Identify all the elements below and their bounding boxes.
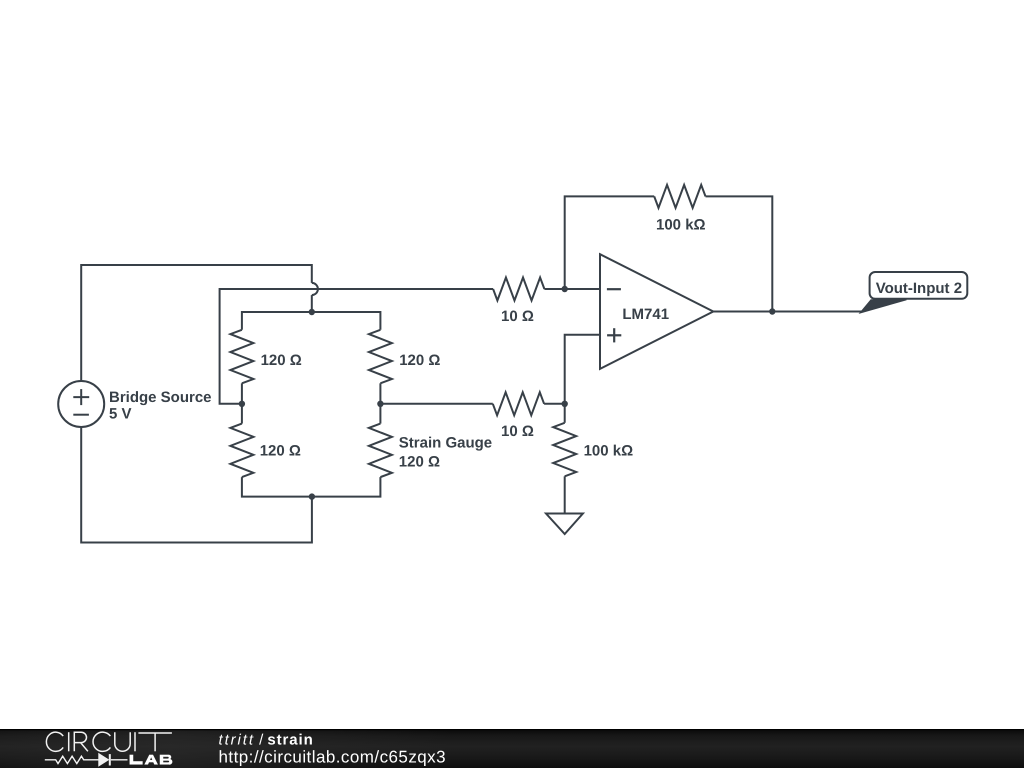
resistor R1 120 ohm (bridge top-left): [230, 330, 253, 384]
wire continues down to bridge top node: [311, 295, 313, 312]
svg-text:Vout-Input 2: Vout-Input 2: [876, 280, 962, 297]
voltage source V1 (Bridge Source 5 V): [58, 381, 104, 427]
resistor R2 120 ohm (bridge top-right): [369, 330, 392, 384]
resistor R5 10 ohm (minus input): [493, 278, 544, 301]
wire R8 to ground: [564, 476, 566, 513]
node: bridge left mid junction: [239, 401, 245, 407]
wire plus node up to op-amp plus input: [565, 335, 600, 404]
node: plus input junction: [562, 401, 568, 407]
svg-text:5 V: 5 V: [109, 405, 132, 422]
node: bridge right mid junction: [377, 401, 383, 407]
svg-text:100 kΩ: 100 kΩ: [584, 443, 634, 460]
op-amp U1 LM741: [600, 254, 713, 369]
svg-text:ttritt / strain: ttritt / strain: [219, 731, 314, 748]
label R4 Strain Gauge 120 ohm: [399, 434, 492, 470]
wire from V1 + terminal up and right to bridge top: [81, 265, 312, 381]
svg-text:100 kΩ: 100 kΩ: [656, 217, 706, 234]
flag tail: [860, 300, 907, 313]
svg-text:120 Ω: 120 Ω: [260, 443, 301, 460]
wire R7 to plus node: [544, 403, 565, 405]
ground symbol: [546, 514, 583, 535]
svg-text:10 Ω: 10 Ω: [501, 308, 534, 325]
wire bridge left mid node to minus-input rail: [220, 289, 494, 404]
wire plus node down to R8: [564, 404, 566, 423]
resistor R3 120 ohm (bridge bottom-left): [230, 424, 253, 478]
wire bridge top rail: [242, 312, 381, 330]
svg-text:120 Ω: 120 Ω: [399, 352, 440, 369]
label Bridge Source 5 V: [109, 389, 212, 423]
wire bridge bottom to V1 - terminal: [81, 427, 312, 543]
node: bridge bottom junction: [309, 493, 315, 499]
wire op-amp output: [713, 311, 864, 313]
svg-text:http://circuitlab.com/c65zqx3: http://circuitlab.com/c65zqx3: [219, 748, 447, 767]
svg-text:120 Ω: 120 Ω: [261, 352, 302, 369]
wire feedback up from minus node: [565, 196, 655, 289]
node: output junction: [769, 308, 775, 314]
svg-text:120 Ω: 120 Ω: [399, 453, 440, 470]
wire bridge right mid node to plus-input rail: [380, 403, 492, 405]
resistor R6 100 kohm (feedback): [654, 185, 705, 208]
flag Vout-Input 2: [870, 272, 968, 299]
svg-text:10 Ω: 10 Ω: [501, 423, 534, 440]
svg-text:Strain Gauge: Strain Gauge: [399, 434, 492, 451]
resistor R8 100 kohm (to ground): [553, 423, 576, 477]
wire hop over minus-input wire: [312, 283, 318, 295]
wire R5 to op-amp minus input: [544, 288, 600, 290]
svg-text:LM741: LM741: [622, 306, 669, 323]
node: bridge top junction: [309, 309, 315, 315]
svg-text:Bridge Source: Bridge Source: [109, 389, 212, 406]
wire feedback right and down to output node: [706, 196, 773, 311]
wire R1 bottom to left mid node: [241, 383, 243, 423]
wire bridge bottom rail: [242, 477, 381, 497]
node: minus input junction: [562, 286, 568, 292]
footer bar: [0, 729, 1024, 768]
logo CIRCUIT LAB: [45, 732, 173, 766]
resistor R7 10 ohm (plus input): [493, 392, 544, 415]
resistor R4 Strain Gauge 120 ohm (bridge bottom-right): [369, 424, 392, 478]
wire R2 bottom to right mid node: [379, 383, 381, 423]
